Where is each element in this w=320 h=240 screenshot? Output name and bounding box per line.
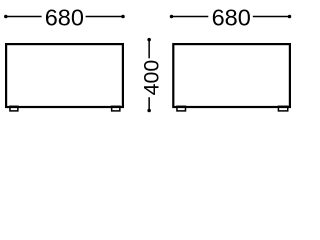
svg-text:400: 400 (139, 60, 163, 96)
left cabinet left foot (10, 106, 18, 111)
dimension 680 left: left line segment (6, 16, 42, 18)
right cabinet body (side view) (173, 44, 290, 107)
dimension 680 left: start dot (4, 15, 8, 19)
dimension 680 right: right line segment (253, 16, 290, 18)
dimension 680 left: end dot (121, 15, 125, 19)
left cabinet body (front view) (6, 44, 123, 107)
svg-text:680: 680 (212, 5, 251, 31)
dimension 680 right: start dot (170, 15, 174, 19)
dimension 680 right: end dot (288, 15, 292, 19)
svg-text:680: 680 (45, 5, 84, 31)
dimension 400 vertical: top line segment (148, 40, 150, 59)
left cabinet right foot (112, 106, 120, 111)
dimension 680 left: right line segment (86, 16, 123, 18)
right cabinet right foot (278, 106, 287, 111)
dimension 400 vertical: top dot (147, 38, 151, 42)
dimension 400 vertical: bottom dot (147, 109, 151, 113)
right cabinet left foot (177, 106, 186, 111)
dimension 400 vertical: bottom line segment (148, 97, 150, 110)
dimension 680 right: left line segment (172, 16, 209, 18)
